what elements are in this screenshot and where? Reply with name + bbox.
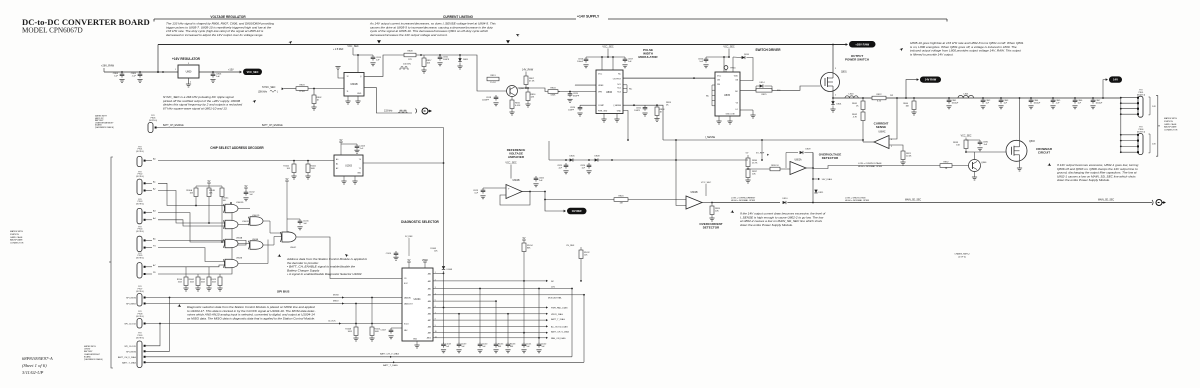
svg-text:+14V SUPPLY: +14V SUPPLY [577,15,600,19]
transistor Q803 MOSFET [1006,140,1035,161]
svg-text:AN7: AN7 [428,319,431,322]
offpage connector sync [422,108,432,114]
svg-text:.1uF: .1uF [132,76,137,78]
svg-text:5V: 5V [286,179,289,181]
svg-text:VCC_SEC: VCC_SEC [247,71,259,74]
svg-text:BATT_T_DIAG: BATT_T_DIAG [383,364,398,367]
note crowbar [1047,163,1138,182]
label VCC_SEC U801 [347,45,359,48]
wire A5 [158,240,246,245]
svg-text:Y0: Y0 [359,159,361,161]
svg-text:3/11/02-UP: 3/11/02-UP [22,370,44,375]
svg-text:as MISO data. The MISO data is: as MISO data. The MISO data is diagnosti… [187,316,315,320]
svg-text:A2: A2 [336,167,338,170]
svg-text:1000PF: 1000PF [482,100,490,102]
wire U804C inputs [889,97,903,151]
op-amp U802B [686,192,702,209]
label L_SENSE [705,136,716,139]
capacitor C1016 [386,251,399,260]
svg-text:R832: R832 [944,161,950,163]
5V U1004 [405,236,429,268]
svg-text:CLOCK: CLOCK [328,320,336,322]
svg-text:AN5: AN5 [428,306,431,309]
svg-text:I_SENSE: I_SENSE [705,136,716,139]
ic U805 pin labels [717,76,739,116]
resistor R1021 [305,161,316,179]
wire AN6 [433,313,548,315]
svg-text:(NOTE 4): (NOTE 4) [136,258,144,260]
svg-text:STATION: STATION [1164,120,1173,123]
diode U1008 [430,248,452,308]
wire batt_t up [583,294,585,362]
note voltage regulator [166,22,274,37]
svg-text:10K: 10K [427,63,431,65]
transistor Q801 MOSFET [821,72,848,92]
svg-text:I_SENSE: I_SENSE [613,105,622,107]
svg-text:2: 2 [190,82,191,84]
svg-text:HIGH = NORMAL OPER: HIGH = NORMAL OPER [731,199,755,202]
pill OV REF [564,208,587,214]
svg-text:D811: D811 [819,192,825,194]
capacitor C806 [210,71,222,82]
wire branch gate [756,86,821,90]
wire ovd to main_sd [812,153,814,204]
diode D809 feedback [786,149,813,169]
ic U1004 [402,268,433,341]
svg-text:14V_RAW: 14V_RAW [522,69,534,72]
diode D811 [813,188,824,194]
note diagnostic selection [177,304,315,320]
wire U801 output 133k [364,88,412,113]
svg-text:1: 1 [175,69,176,71]
svg-text:CHARGER/RIGHT: CHARGER/RIGHT [84,353,101,356]
svg-text:VDD: VDD [734,76,739,78]
5V rail decoder [196,181,222,188]
svg-text:FAN_ON_DIAG: FAN_ON_DIAG [551,337,566,340]
diode D806 [570,156,576,162]
nc bracket U805 [706,85,715,106]
svg-text:MODULE FAIL: MODULE FAIL [548,296,563,299]
wire U1003 out [363,162,444,164]
svg-text:SWITCH DRIVER: SWITCH DRIVER [755,48,781,52]
label MAIN_SD_SEC 2 [1098,199,1115,202]
capacitor C804 [113,72,125,83]
svg-text:• A signal to enable/disable: • A signal to enable/disable Diagnostic … [287,272,362,276]
wire P909 mosi up [145,298,170,352]
resistor R1022 [283,161,296,179]
label low overcurrent [731,197,756,202]
svg-text:U805: U805 [724,94,731,97]
wire +14V supply rail right [608,19,947,22]
resistor R910A [186,188,198,206]
resistor R822 [872,94,893,103]
connector P806 [1137,134,1143,155]
resistor R837 [745,169,757,183]
svg-text:D816: D816 [744,54,750,56]
svg-text:CONNECTOR: CONNECTOR [10,243,24,245]
svg-text:AC_GOOD_DIAG: AC_GOOD_DIAG [551,326,568,329]
svg-text:100K: 100K [375,331,380,333]
svg-text:C1016: C1016 [386,253,391,255]
label VCC_SEC crowbar [961,136,972,141]
resistor R1008 [345,304,358,342]
wire +26V rail [158,44,846,46]
note mates batt chgr [95,115,115,129]
label R824 [666,102,672,107]
svg-text:1uF: 1uF [216,76,220,78]
svg-text:2W: 2W [890,95,893,97]
label SYNC_SEC [262,86,284,90]
labels pullup row [177,279,217,283]
resistor R816 [525,87,536,107]
svg-text:630PF: 630PF [573,96,580,98]
grounds U806 [601,114,619,123]
wire BATT_T_DIAG [145,361,584,367]
section label OUTPUT POWER SWITCH [845,54,869,61]
capacitor C823 [473,188,506,199]
svg-text:BATT_T_DIAG: BATT_T_DIAG [551,318,565,321]
svg-text:BACKPLANE: BACKPLANE [10,239,23,242]
section label OVERCURRENT DETECTOR [699,222,722,229]
resistor R832 [940,161,952,170]
svg-text:MAIN_SD_SEC: MAIN_SD_SEC [1098,199,1115,202]
label FAN_ON_DIAG [551,337,566,340]
svg-text:OV_REF: OV_REF [566,245,575,247]
wire AN9 [433,332,548,334]
svg-text:6: 6 [891,139,892,141]
capacitor C818 [482,95,499,106]
svg-text:NC1: NC1 [617,84,621,86]
pill 14V RAW [905,77,941,99]
svg-text:68P81095E97-A: 68P81095E97-A [22,356,53,361]
wire A4 [158,220,225,226]
svg-text:3: 3 [835,68,836,70]
label +26V_RAW [101,65,115,73]
svg-text:CARD CAGE: CARD CAGE [1164,123,1177,126]
svg-text:4.7K: 4.7K [853,117,858,119]
svg-text:10: 10 [287,232,289,234]
svg-text:10K: 10K [956,145,960,147]
section label PULSE WIDTH MODULATOR [638,48,658,59]
wire A8 [158,209,232,275]
ic U806 pin labels [598,74,622,113]
wire U804C output [863,141,874,143]
svg-text:U802A: U802A [794,159,801,162]
svg-text:VCC_SEC: VCC_SEC [723,46,735,49]
resistor R818 [654,105,665,121]
svg-text:12: 12 [347,76,349,78]
label +15V [228,69,234,72]
svg-text:MODULATOR: MODULATOR [638,55,658,59]
svg-text:BATT_CH_V_DIAG: BATT_CH_V_DIAG [551,331,569,334]
svg-text:NC2: NC2 [617,88,621,90]
resistor R807 [524,74,535,88]
svg-text:DETECTOR: DETECTOR [703,225,720,229]
svg-text:47.5K: 47.5K [529,81,535,83]
label P801 [1137,89,1145,96]
gate U902B [223,240,268,268]
wire A2 [158,191,225,224]
wire AN5 [433,306,548,308]
resistor R835 [770,165,780,171]
wire Q802 collector [518,87,527,89]
svg-text:U1001D: U1001D [252,215,260,217]
svg-text:OUTPUT: OUTPUT [613,78,622,80]
svg-text:1000uF: 1000uF [1034,102,1042,104]
wire UREF [575,84,596,86]
wire ovd plus2 [780,168,790,170]
capacitor C835 [966,140,989,151]
wire MOSI [145,297,402,299]
svg-text:D801: D801 [837,104,843,106]
svg-text:(NOTE 4): (NOTE 4) [136,176,144,178]
svg-text:COMP: COMP [598,105,605,107]
svg-text:(266 kHz: (266 kHz [258,91,268,93]
label JIN AN2 [551,286,555,288]
diode D816 [733,54,753,81]
svg-text:U904C: U904C [290,247,297,249]
label MISO arrow [333,300,344,304]
svg-text:630K: 630K [551,95,556,97]
svg-text:SPI_MOSI: SPI_MOSI [126,298,136,300]
wire AN3 [433,294,584,296]
resistor R817 [421,55,432,73]
section label OVERVOLTAGE DETECTOR [819,153,842,160]
svg-text:SCLK: SCLK [404,323,409,325]
resistor R833 [953,140,968,153]
op-amp U802A [790,159,806,175]
capacitor C815 [437,55,449,66]
label BATT_CH_V_DIAG an9 [551,331,569,334]
svg-text:down the entire Power Supply M: down the entire Power Supply Module. [1057,178,1110,182]
regulator U800 [178,65,199,78]
grounds U1003 [341,176,357,184]
svg-text:5: 5 [891,146,892,148]
wire crowbar base [952,165,969,167]
svg-text:U804C: U804C [878,132,885,134]
connector P901 [136,146,156,166]
resistor R1012 [579,250,590,281]
wire P909 clock up [145,323,161,346]
svg-text:CHIP SELECT ADDRESS DECODER: CHIP SELECT ADDRESS DECODER [210,146,264,150]
svg-text:AN2: AN2 [428,287,431,290]
svg-text:U1008: U1008 [447,269,453,271]
svg-text:decreased or increased to adju: decreased or increased to adjust the 14V… [166,33,263,37]
grounds U805 [716,110,755,124]
wire refamp feedback [500,191,531,205]
wire AN2 [433,288,572,290]
label VCC_SEC U805 [723,46,735,49]
svg-text:100K: 100K [348,331,353,333]
label VCC_SEC U802B [701,182,712,196]
wire MAIN_SD_SEC [813,202,1152,204]
wire Q802 base [487,90,507,92]
svg-text:AN9: AN9 [428,332,431,335]
svg-text:POWER SWITCH: POWER SWITCH [845,57,869,61]
label backplane right [1164,117,1178,132]
gate U904C [280,232,296,250]
offpage bracket main_sd [1152,200,1153,205]
svg-text:MATES WITH: MATES WITH [1164,117,1177,120]
label P907 [136,286,144,293]
svg-text:U800: U800 [186,71,192,74]
svg-text:A1: A1 [336,163,338,166]
label VCC_SEC U806 [602,46,614,49]
svg-text:AN8: AN8 [428,325,431,328]
wire osc to Q802 base [467,55,487,91]
wire AN10 [433,337,548,339]
svg-text:MISO: MISO [333,300,339,302]
wire AN1 [433,280,582,282]
bracket backplane left [109,157,113,368]
svg-text:(NOTE 4): (NOTE 4) [136,291,144,293]
svg-text:HIGH = NORMAL OPER: HIGH = NORMAL OPER [845,199,869,202]
label MOSI arrow [333,294,344,298]
junction dots input [121,71,164,73]
svg-text:2: 2 [835,95,836,97]
resistor R842 [852,110,865,143]
label +14V SUPPLY [577,15,600,19]
svg-text:(NOTE 4): (NOTE 4) [136,204,144,206]
capacitor bank 14V rail [946,97,1103,109]
svg-text:DIAGNOSTIC SELECTOR: DIAGNOSTIC SELECTOR [401,220,439,224]
wire AN4 [433,300,497,302]
section label +16V REGULATOR [172,57,201,61]
wire Q802 emitter [511,97,513,101]
svg-text:C1017: C1017 [380,330,386,332]
svg-text:VCC: VCC [598,74,603,76]
svg-text:Q803: Q803 [1029,141,1035,143]
svg-text:DC-to-DC CONVERTER BOARD: DC-to-DC CONVERTER BOARD [22,17,150,27]
resistor R804 [548,87,558,96]
wire vcc U801 [353,48,373,73]
svg-text:(NOTE 6): (NOTE 6) [149,120,157,122]
svg-text:15.1K: 15.1K [490,82,496,84]
gate U1003C [223,220,250,229]
svg-text:AN1: AN1 [428,280,431,283]
svg-text:V3: V3 [736,103,738,105]
wire 14V pill feed [1102,80,1106,99]
label MODULE FAIL [548,296,563,299]
svg-text:CARD CAGE: CARD CAGE [10,236,23,239]
section label VOLTAGE REGULATOR [210,15,246,19]
svg-text:UREF: UREF [598,85,604,87]
svg-text:5V: 5V [245,186,248,188]
wire vcc U805 [706,49,733,73]
svg-text:NC3: NC3 [617,91,621,93]
ic U805 [715,72,740,116]
svg-text:14V: 14V [1152,144,1156,146]
svg-text:D806: D806 [570,156,576,158]
svg-text:SPI_MISO: SPI_MISO [126,304,136,306]
gate U1001D [248,215,282,233]
wire batt_ch_v up [571,288,573,357]
connector P801 [1137,96,1143,117]
svg-text:DATA OUT: DATA OUT [404,302,414,305]
svg-text:+28V RAW: +28V RAW [855,42,869,46]
capacitor C1017 [380,328,402,339]
arrow marker down 2 [506,40,510,43]
connector P908 [124,319,145,329]
label BATT_CH_ENABLE 1 [163,124,184,127]
gate U903A [223,237,250,248]
svg-text:Y1: Y1 [359,168,361,170]
svg-text:(VIA RIBBON CABLE): (VIA RIBBON CABLE) [84,358,103,361]
wire 26V input [104,71,178,73]
svg-text:DATA IN: DATA IN [404,296,411,299]
svg-text:Q801: Q801 [841,72,847,74]
label MAIN_SD_SEC [905,199,922,202]
wire AN8 [433,325,548,327]
svg-text:VCC_SEC: VCC_SEC [347,45,359,48]
svg-text:CHASIS_MMT-2: CHASIS_MMT-2 [954,253,970,256]
svg-text:12K: 12K [531,97,535,99]
wire 26V feed vertical [157,45,159,73]
svg-text:14V: 14V [1113,78,1118,82]
svg-text:R825: R825 [762,94,768,96]
inductor L801 [958,94,974,99]
ic U806 [596,70,623,114]
svg-text:VCC_SEC: VCC_SEC [505,162,517,165]
resistor R821 [900,151,912,165]
connector P906 stub [148,123,157,133]
label BATT_T_DIAG an7 [551,318,565,321]
transistor Q806 [969,160,988,172]
svg-text:MATES WITH: MATES WITH [84,345,96,348]
title block [22,17,150,27]
bracket P806 [1149,134,1157,153]
resistor R803 [296,84,308,93]
section label CHIP SELECT ADDRESS DECODER [210,146,264,150]
wire 14V raw rail [833,97,1121,99]
svg-text:AN6: AN6 [428,313,431,316]
svg-text:1M: 1M [620,203,623,205]
svg-text:BATT_CH_ENABLE: BATT_CH_ENABLE [262,124,283,127]
wire Q803 source [1017,161,1022,171]
section label REFERENCE VOLTAGE AMPLIFIER [507,148,526,159]
wire osc rail [401,54,467,56]
svg-text:GND: GND [357,93,362,95]
svg-text:BATT_CH_ENABLE: BATT_CH_ENABLE [163,124,184,127]
label 5V_REF [746,153,769,156]
label chassis [954,253,970,259]
svg-text:MATES WITH: MATES WITH [10,230,23,233]
ground R802 [311,107,316,110]
pill 14V [1106,76,1122,82]
resistor R1010 [369,298,380,342]
wires P806 [1120,134,1137,153]
svg-text:67 kHz square-wave signal at U: 67 kHz square-wave signal at U801-10 and… [163,106,228,110]
svg-text:AN10: AN10 [427,337,431,340]
wire Q803 drain [1019,97,1021,140]
label P909 [136,333,144,340]
ground U1004 [414,341,419,348]
svg-text:SPI_CLOCK: SPI_CLOCK [124,346,136,348]
note chgr text [84,345,103,361]
inductor L800 [845,94,858,99]
ic U801B [344,73,364,97]
svg-text:D810: D810 [783,198,789,200]
svg-text:VOLTAGE REGULATOR: VOLTAGE REGULATOR [210,15,246,19]
svg-text:U806: U806 [606,91,613,94]
capacitor C816 [577,57,589,68]
svg-text:VFB: VFB [598,91,603,93]
svg-text:AMPLIFIER: AMPLIFIER [508,155,525,159]
svg-text:LOW = SHUTDOWN: LOW = SHUTDOWN [845,197,866,199]
nc bracket U806 [623,85,633,93]
label P908 [136,311,144,318]
svg-text:3: 3 [188,63,189,65]
